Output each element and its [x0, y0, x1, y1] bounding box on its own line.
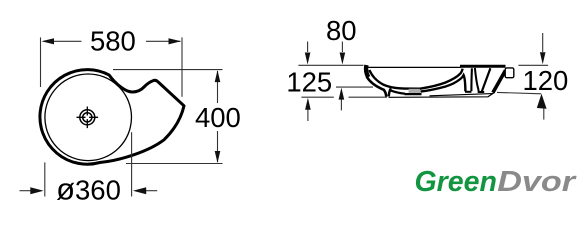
profile: underside line left of drain	[390, 90, 405, 94]
svg-text:ø360: ø360	[56, 172, 121, 207]
profile: outer left wall and leg	[367, 77, 387, 97]
profile: rim thick bar	[460, 65, 506, 68]
dim 120: up arrow	[543, 108, 545, 120]
svg-text:80: 80	[326, 15, 357, 46]
profile: channel bottom join	[465, 91, 471, 93]
dim 120: bottom extension line	[497, 92, 541, 93]
drain symbol	[77, 107, 99, 129]
profile: right thick diagonal	[493, 71, 506, 93]
dim 120: down arrow	[542, 33, 544, 52]
dim 80/125 arrow shafts	[308, 42, 343, 122]
svg-text:Dvor: Dvor	[497, 166, 577, 198]
profile: overflow channel right wall	[470, 68, 473, 91]
profile: base line lower	[389, 93, 494, 98]
profile: drain bottom band	[405, 93, 422, 95]
svg-text:125: 125	[286, 67, 332, 98]
profile: funnel stem bottom	[478, 91, 485, 93]
side view: reference line top (rim level)	[298, 42, 387, 122]
profile: tail tip rectangle	[505, 68, 514, 78]
svg-text:400: 400	[195, 102, 241, 133]
profile: funnel right edge	[482, 68, 491, 91]
dimension ø360: extension lines	[20, 132, 158, 196]
profile: rim thin line	[368, 66, 461, 68]
profile: funnel left edge	[475, 68, 479, 91]
svg-text:580: 580	[90, 26, 136, 57]
dimension 580: extension lines	[41, 37, 183, 96]
dimension ø360: dim lines	[20, 190, 32, 192]
svg-text:120: 120	[522, 65, 568, 96]
dim 120: top reference line	[518, 64, 548, 66]
profile: bowl inner surface	[369, 69, 462, 89]
profile: base line upper	[430, 94, 493, 96]
dimension 580: dim lines	[44, 40, 82, 42]
dim arrowheads: down to rim line (125 & 80)	[305, 53, 311, 65]
svg-text:Green: Green	[415, 166, 497, 198]
profile: left knob	[366, 65, 368, 77]
dimension 400: arrowheads	[215, 70, 221, 82]
profile: underside diagonal right of drain, rises into overflow left wall	[421, 75, 466, 92]
dim arrowheads: up arrows	[339, 88, 345, 100]
dimension 580: arrowheads	[42, 38, 55, 44]
dimension 400: extension lines	[113, 70, 223, 164]
side view: reference line 125-bottom	[301, 96, 387, 98]
dimension ø360: arrowheads	[30, 187, 43, 194]
profile: drain plug gray	[409, 89, 420, 93]
profile: leg right edge	[389, 88, 391, 96]
logo GreenDvor	[415, 166, 577, 198]
dimension 400: dim line	[217, 71, 219, 103]
basin outer outline (top view)	[40, 70, 184, 165]
inner bowl circle ø360	[45, 74, 132, 161]
side view: reference line 80-bottom	[336, 86, 373, 88]
